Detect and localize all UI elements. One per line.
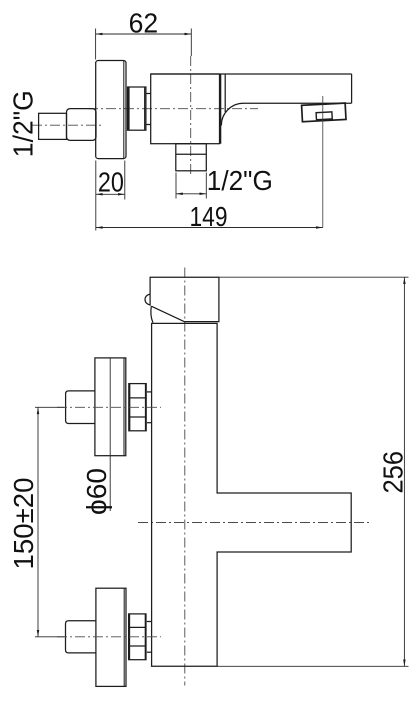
svg-text:62: 62 — [129, 6, 159, 38]
svg-text:20: 20 — [98, 165, 124, 197]
svg-text:ϕ60: ϕ60 — [80, 468, 112, 515]
svg-text:1/2"G: 1/2"G — [207, 164, 273, 196]
svg-text:149: 149 — [190, 200, 228, 232]
svg-text:150±20: 150±20 — [7, 478, 39, 570]
svg-text:1/2"G: 1/2"G — [7, 90, 39, 157]
svg-text:256: 256 — [377, 451, 409, 494]
